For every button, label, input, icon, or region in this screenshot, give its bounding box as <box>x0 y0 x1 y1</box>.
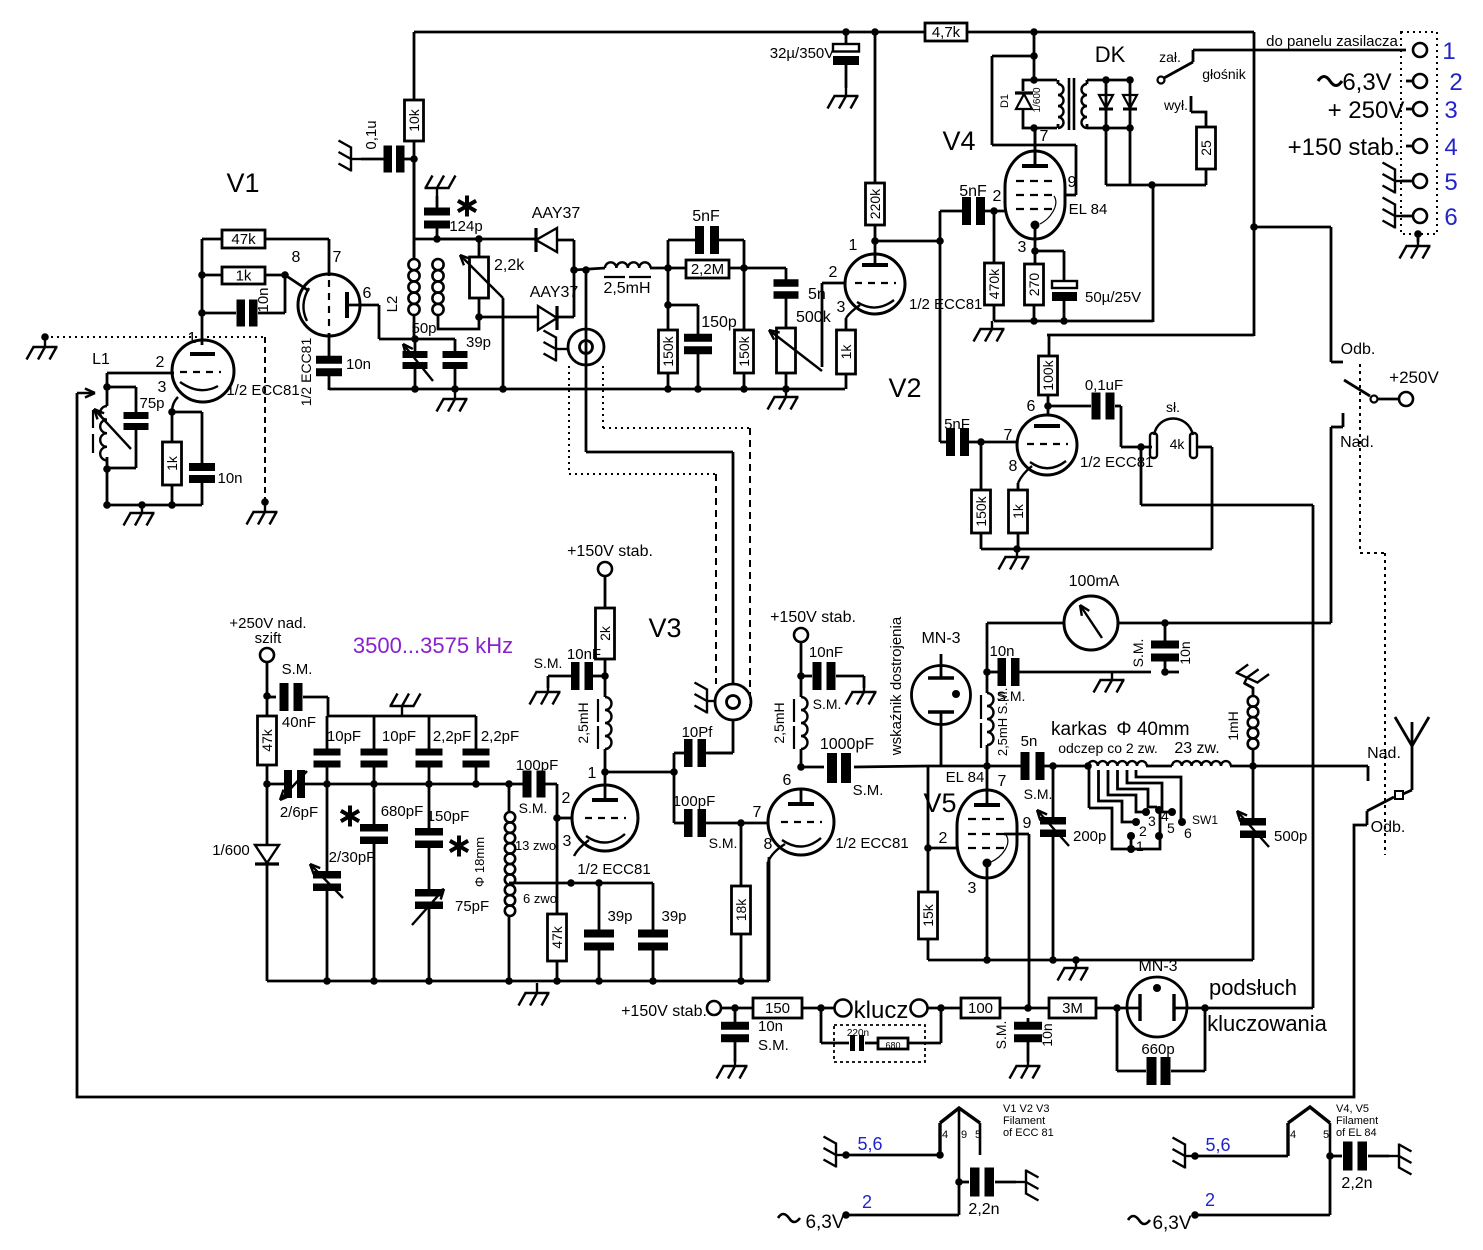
svg-text:10Pf: 10Pf <box>682 724 714 741</box>
svg-text:V1: V1 <box>226 168 259 198</box>
resistor 25 <box>1197 127 1216 169</box>
svg-text:10n: 10n <box>255 287 272 312</box>
svg-text:3: 3 <box>1148 813 1156 829</box>
resistor 1k cathode <box>845 318 848 330</box>
svg-text:10n: 10n <box>1039 1023 1055 1046</box>
svg-text:S.M.: S.M. <box>995 688 1010 715</box>
ground <box>824 1137 847 1168</box>
capacitor 75pF variable <box>415 889 443 897</box>
resistor 1k <box>222 267 265 284</box>
svg-text:23 zw.: 23 zw. <box>1174 740 1219 757</box>
wire grid L1 <box>107 372 174 375</box>
svg-text:S.M.: S.M. <box>519 800 548 816</box>
svg-text:39p: 39p <box>607 908 632 925</box>
connector 2 <box>715 684 751 720</box>
ground <box>1414 230 1422 238</box>
ground <box>339 141 362 172</box>
svg-text:AAY37: AAY37 <box>530 284 579 301</box>
svg-text:5n: 5n <box>1021 733 1038 750</box>
capacitor 0,1uF <box>1092 393 1101 420</box>
resistor 2,2M <box>686 260 729 278</box>
svg-text:2,2k: 2,2k <box>494 257 525 274</box>
wire <box>1146 765 1172 768</box>
ground <box>124 505 155 526</box>
svg-text:7: 7 <box>998 773 1007 790</box>
svg-text:4: 4 <box>942 1129 948 1141</box>
svg-text:2,5mH: 2,5mH <box>995 718 1010 756</box>
ground <box>1016 1170 1039 1201</box>
ground <box>828 88 859 109</box>
svg-text:150k: 150k <box>660 335 676 366</box>
svg-text:kluczowania: kluczowania <box>1207 1011 1328 1036</box>
resistor 2k <box>596 608 615 659</box>
svg-text:10pF: 10pF <box>327 728 361 745</box>
capacitor 10pF <box>326 716 329 750</box>
wire <box>1230 765 1368 768</box>
capacitor 2/30pF variable <box>326 784 329 872</box>
tube V3b 1/2 ECC81 <box>768 789 834 855</box>
svg-text:Filament: Filament <box>1003 1115 1045 1127</box>
svg-text:15k: 15k <box>920 903 936 927</box>
svg-text:10n: 10n <box>346 356 371 373</box>
svg-text:3: 3 <box>563 833 572 850</box>
ground <box>390 694 421 717</box>
terminal 2 <box>1413 74 1427 88</box>
svg-text:1k: 1k <box>164 455 180 471</box>
terminal 5 <box>1413 174 1427 188</box>
capacitor 10n meter right S.M. <box>1164 623 1167 641</box>
ground <box>1233 661 1269 692</box>
svg-text:470k: 470k <box>986 268 1002 299</box>
resistor 47k <box>222 230 265 248</box>
svg-text:1k: 1k <box>1010 503 1026 519</box>
svg-text:odczep co 2 zw.: odczep co 2 zw. <box>1058 740 1158 756</box>
svg-text:1: 1 <box>849 237 858 254</box>
resistor 47k grid <box>556 818 559 914</box>
capacitor 50u/25V <box>1035 250 1064 253</box>
svg-text:1/600: 1/600 <box>1032 87 1043 112</box>
wire pin3 <box>172 397 178 412</box>
coil karkas section 2 <box>1172 761 1231 766</box>
ground <box>425 176 456 197</box>
svg-text:V5: V5 <box>923 788 956 818</box>
ground <box>437 391 468 412</box>
svg-text:1000pF: 1000pF <box>820 736 874 753</box>
ground <box>863 676 866 688</box>
svg-text:7: 7 <box>1004 427 1013 444</box>
ground <box>1173 1138 1196 1169</box>
svg-text:2,2pF: 2,2pF <box>433 728 471 745</box>
capacitor 2,2pF <box>428 716 431 750</box>
svg-text:660p: 660p <box>1141 1041 1174 1058</box>
svg-text:V2: V2 <box>888 373 921 403</box>
svg-text:S.M.: S.M. <box>534 655 563 671</box>
resistor 1k <box>171 412 174 442</box>
svg-text:3: 3 <box>1444 97 1457 124</box>
svg-text:6,3V: 6,3V <box>1152 1213 1191 1234</box>
capacitor 5nF <box>667 240 670 268</box>
svg-text:5: 5 <box>1444 169 1457 196</box>
wire pin6 <box>349 304 379 307</box>
wire cathode V3b <box>767 862 770 981</box>
wire <box>1033 32 1036 80</box>
tube V2a 1/2 ECC81 <box>845 254 905 314</box>
filament V4 V5 tent <box>1288 1107 1330 1123</box>
ground <box>1389 1144 1412 1175</box>
wire to mixer grid <box>556 784 559 818</box>
wire 100k feed <box>1047 334 1254 337</box>
inductor 2,5mH wsk <box>987 693 994 745</box>
resistor 500k variable <box>777 328 796 373</box>
svg-text:3: 3 <box>158 379 167 396</box>
svg-text:150p: 150p <box>701 314 737 331</box>
svg-text:18k: 18k <box>733 898 749 922</box>
svg-text:Filament: Filament <box>1336 1115 1378 1127</box>
svg-text:3: 3 <box>1018 239 1027 256</box>
diode D1 <box>1015 91 1033 94</box>
ground <box>999 549 1030 570</box>
capacitor 680pF <box>373 784 376 826</box>
svg-text:75pF: 75pF <box>455 898 489 915</box>
svg-text:+ 250V: + 250V <box>1328 97 1405 124</box>
wire receive path border <box>1366 811 1369 825</box>
wire <box>729 267 786 270</box>
svg-text:2,2n: 2,2n <box>1341 1175 1372 1192</box>
terminal 6 <box>1413 209 1427 223</box>
svg-text:V4: V4 <box>942 126 975 156</box>
svg-text:V3: V3 <box>648 613 681 643</box>
terminal 4 <box>1413 139 1427 153</box>
svg-text:9: 9 <box>961 1129 967 1141</box>
svg-text:2,2n: 2,2n <box>968 1201 999 1218</box>
resistor 4,7k <box>925 23 967 41</box>
svg-text:podsłuch: podsłuch <box>1209 975 1297 1000</box>
capacitor 2,2pF <box>475 716 478 750</box>
svg-text:of EL 84: of EL 84 <box>1336 1127 1377 1139</box>
transformer core <box>1068 78 1071 130</box>
svg-text:1k: 1k <box>236 268 252 285</box>
switch SW1 taps <box>1088 766 1091 808</box>
svg-text:1: 1 <box>1442 38 1455 65</box>
svg-text:200p: 200p <box>1073 828 1106 845</box>
svg-text:2: 2 <box>829 264 838 281</box>
resistor 470k <box>993 211 996 263</box>
wire anode net <box>928 765 1022 768</box>
svg-text:3: 3 <box>968 880 977 897</box>
ground <box>695 683 717 714</box>
switch antenna <box>1411 746 1414 790</box>
svg-text:5: 5 <box>975 1129 981 1141</box>
dashed switch link <box>1359 364 1361 553</box>
svg-text:AAY37: AAY37 <box>532 205 581 222</box>
svg-text:10n: 10n <box>989 643 1014 660</box>
svg-text:of ECC 81: of ECC 81 <box>1003 1127 1054 1139</box>
tube V4 EL84 <box>1005 151 1065 239</box>
svg-text:5nF: 5nF <box>959 183 987 200</box>
svg-text:7: 7 <box>333 249 342 266</box>
svg-text:0,1u: 0,1u <box>363 120 380 149</box>
ground <box>247 504 278 525</box>
svg-text:150pF: 150pF <box>427 808 470 825</box>
capacitor 660p <box>1116 1008 1119 1071</box>
wire 5,6 <box>846 1154 940 1157</box>
capacitor 10n meter left <box>998 658 1007 686</box>
resistor 100 <box>961 998 1000 1018</box>
svg-text:7: 7 <box>753 804 762 821</box>
svg-text:1: 1 <box>1136 838 1144 854</box>
svg-text:10nF: 10nF <box>809 644 843 661</box>
capacitor 50p variable <box>414 339 417 351</box>
svg-text:L1: L1 <box>92 351 110 368</box>
wire sidetone <box>1140 447 1143 505</box>
inductor 1mH <box>1252 749 1255 766</box>
svg-text:25: 25 <box>1198 140 1214 156</box>
svg-text:100: 100 <box>968 1000 993 1017</box>
svg-text:6: 6 <box>783 772 792 789</box>
svg-text:5: 5 <box>1167 820 1175 836</box>
wire <box>875 240 940 243</box>
svg-text:124p: 124p <box>449 218 482 235</box>
svg-text:150k: 150k <box>973 495 989 526</box>
svg-text:5,6: 5,6 <box>857 1134 882 1154</box>
resistor 150k <box>980 442 983 490</box>
svg-text:V1 V2 V3: V1 V2 V3 <box>1003 1103 1049 1115</box>
inductor 2,5mH V3a <box>605 697 612 749</box>
svg-text:6 zwo: 6 zwo <box>523 891 557 906</box>
svg-text:2,5mH: 2,5mH <box>575 702 591 743</box>
resistor 2,2k variable <box>478 239 481 257</box>
svg-text:2: 2 <box>939 830 948 847</box>
svg-text:SW1: SW1 <box>1192 813 1218 827</box>
wire <box>202 274 222 277</box>
resistor 150k <box>743 268 746 330</box>
svg-text:1/2 ECC81: 1/2 ECC81 <box>577 861 650 878</box>
wire <box>986 623 989 693</box>
svg-text:8: 8 <box>292 249 301 266</box>
svg-text:500k: 500k <box>796 309 832 326</box>
capacitor 2/6pF variable <box>284 770 292 798</box>
wire grid V2a <box>821 283 824 367</box>
main bus oscillator <box>267 783 284 786</box>
capacitor 39p <box>598 883 601 931</box>
svg-text:2: 2 <box>1449 69 1462 96</box>
svg-text:+150 stab.: +150 stab. <box>1288 134 1401 161</box>
svg-text:4: 4 <box>1290 1129 1296 1141</box>
capacitor S.M. 40nF <box>280 683 289 711</box>
svg-text:V4, V5: V4, V5 <box>1336 1103 1369 1115</box>
dashed shield <box>264 337 266 502</box>
resistor 100k <box>1039 356 1058 395</box>
ground <box>544 331 568 362</box>
wire anode pin7 <box>1034 128 1037 166</box>
svg-text:150: 150 <box>765 1000 790 1017</box>
svg-text:1mH: 1mH <box>1225 711 1241 741</box>
wire <box>437 238 536 241</box>
ground <box>974 321 1005 342</box>
svg-text:680: 680 <box>885 1041 900 1051</box>
svg-text:Odb.: Odb. <box>1371 819 1406 836</box>
svg-text:+150V stab.: +150V stab. <box>621 1003 707 1020</box>
svg-text:4: 4 <box>1444 134 1457 161</box>
svg-text:2,5mH: 2,5mH <box>603 280 650 297</box>
wire cathode bus <box>329 388 845 391</box>
capacitor 2,2n <box>955 1178 963 1186</box>
transformer secondary <box>1082 84 1088 128</box>
svg-text:MN-3: MN-3 <box>921 630 960 647</box>
svg-text:500p: 500p <box>1274 828 1307 845</box>
svg-text:13 zwoi: 13 zwoi <box>515 838 559 853</box>
tube V1b 1/2 ECC81 <box>172 340 234 402</box>
wire 6,3V <box>1329 1156 1332 1215</box>
dotted shield lines <box>568 366 570 474</box>
capacitor 5n S.M. <box>1021 752 1030 780</box>
svg-text:270: 270 <box>1026 273 1042 297</box>
capacitor 32u/350V <box>845 32 848 44</box>
svg-text:DK: DK <box>1095 42 1126 67</box>
svg-text:680pF: 680pF <box>381 803 424 820</box>
capacitor 39p <box>652 883 655 931</box>
svg-text:1/2 ECC81: 1/2 ECC81 <box>835 835 908 852</box>
resistor 18k <box>740 823 743 886</box>
ground <box>1010 1062 1041 1079</box>
svg-text:Odb.: Odb. <box>1341 341 1376 358</box>
capacitor 5nF V2 grid <box>940 441 947 444</box>
svg-text:32µ/350V: 32µ/350V <box>770 45 835 62</box>
svg-text:+150V stab.: +150V stab. <box>567 543 653 560</box>
svg-text:10n: 10n <box>758 1018 783 1035</box>
svg-text:100mA: 100mA <box>1069 573 1120 590</box>
svg-text:6: 6 <box>1027 398 1036 415</box>
svg-text:L2: L2 <box>384 296 401 313</box>
tube V2b 1/2 ECC81 <box>1017 415 1077 475</box>
svg-text:do panelu zasilacza: do panelu zasilacza <box>1266 33 1398 50</box>
capacitor 10Pf <box>673 753 676 823</box>
ground <box>1058 960 1089 981</box>
terminal klucz 1 <box>835 1000 852 1017</box>
capacitor 10n cathode <box>316 356 342 364</box>
ground <box>1094 672 1125 693</box>
capacitor 150p <box>668 304 698 307</box>
resistor 3M <box>1049 998 1096 1018</box>
svg-text:10pF: 10pF <box>382 728 416 745</box>
svg-text:220k: 220k <box>867 188 883 219</box>
svg-text:6: 6 <box>1444 204 1457 231</box>
svg-text:100k: 100k <box>1040 359 1056 390</box>
svg-text:1: 1 <box>188 330 197 347</box>
svg-text:2: 2 <box>562 790 571 807</box>
capacitor 5n <box>785 268 788 281</box>
tube V3a 1/2 ECC81 <box>572 785 638 851</box>
capacitor 5nF grid V4 <box>940 210 963 213</box>
wire speaker return <box>1129 128 1132 185</box>
svg-text:47k: 47k <box>259 728 275 752</box>
svg-text:MN-3: MN-3 <box>1138 958 1177 975</box>
resistor 47k <box>258 716 277 765</box>
svg-text:5nF: 5nF <box>692 208 720 225</box>
svg-text:wył.: wył. <box>1163 97 1188 113</box>
svg-text:klucz: klucz <box>854 997 909 1024</box>
diode speaker 1 <box>1105 80 1108 128</box>
svg-text:EL 84: EL 84 <box>946 769 985 786</box>
ground bus V5 <box>928 959 1253 962</box>
wire B+ rail top <box>414 31 925 34</box>
svg-text:150k: 150k <box>736 335 752 366</box>
capacitor 100pF S.M. osc <box>523 771 532 798</box>
svg-text:39p: 39p <box>466 334 491 351</box>
capacitor 0,1u <box>384 146 393 173</box>
svg-text:220n: 220n <box>847 1028 869 1039</box>
svg-text:+250V: +250V <box>1389 368 1439 387</box>
svg-text:2: 2 <box>862 1192 872 1212</box>
wire anode to caps <box>939 211 942 442</box>
svg-text:8: 8 <box>1009 458 1018 475</box>
wire pin1 junction <box>605 771 674 774</box>
svg-text:2: 2 <box>156 354 165 371</box>
antenna <box>1395 717 1429 746</box>
svg-text:1/2 ECC81: 1/2 ECC81 <box>226 382 299 399</box>
tube V1a 1/2 ECC81 <box>298 274 360 336</box>
contact Nad stub <box>1367 766 1370 781</box>
svg-text:3500...3575 kHz: 3500...3575 kHz <box>353 633 513 658</box>
svg-text:4k: 4k <box>1170 436 1186 452</box>
wire to mixer <box>586 451 733 454</box>
svg-text:2: 2 <box>993 188 1002 205</box>
capacitor 1000pF <box>827 753 837 783</box>
svg-text:5nF: 5nF <box>944 416 970 433</box>
wire cathode ground <box>981 548 1212 551</box>
svg-text:2,2M: 2,2M <box>691 261 724 278</box>
wire 10k feed <box>413 32 416 100</box>
capacitor 10nF S.M. V3b <box>813 662 822 690</box>
svg-text:5,6: 5,6 <box>1205 1135 1230 1155</box>
svg-text:D1: D1 <box>999 94 1011 108</box>
inductor 2,5mH <box>605 262 651 268</box>
node detector out <box>570 266 578 274</box>
svg-text:10n: 10n <box>1177 641 1193 664</box>
terminal panel dotted box <box>1401 32 1437 234</box>
svg-text:2: 2 <box>1205 1190 1215 1210</box>
capacitor 10n S.M. <box>734 1008 737 1023</box>
svg-text:47k: 47k <box>549 925 565 949</box>
terminal +250V <box>1399 392 1413 406</box>
svg-text:8: 8 <box>764 836 773 853</box>
capacitor 39p <box>415 338 455 341</box>
svg-text:S.M.: S.M. <box>1024 786 1053 802</box>
wire <box>413 141 416 259</box>
svg-text:sł.: sł. <box>1166 399 1180 415</box>
svg-text:2/30pF: 2/30pF <box>329 849 376 866</box>
svg-text:2,2pF: 2,2pF <box>481 728 519 745</box>
inductor 2,5mH V3b <box>801 697 808 749</box>
svg-text:EL 84: EL 84 <box>1069 201 1108 218</box>
capacitor 150pF <box>428 784 431 830</box>
wire <box>414 238 437 241</box>
capacitor 2,2n <box>1330 1155 1342 1158</box>
svg-text:3M: 3M <box>1062 1000 1083 1017</box>
diode 1/600 <box>266 784 269 845</box>
wire 5,6 <box>1195 1155 1288 1158</box>
capacitor 10pF <box>373 716 376 750</box>
resistor 10k <box>405 100 424 141</box>
wire cathode tap <box>514 882 653 885</box>
capacitor 75p <box>107 386 136 389</box>
wire <box>479 316 538 319</box>
ground <box>547 676 550 688</box>
svg-text:S.M.: S.M. <box>709 835 738 851</box>
svg-text:10k: 10k <box>406 108 422 132</box>
capacitor 10n <box>201 412 204 464</box>
svg-text:Nad.: Nad. <box>1340 434 1374 451</box>
